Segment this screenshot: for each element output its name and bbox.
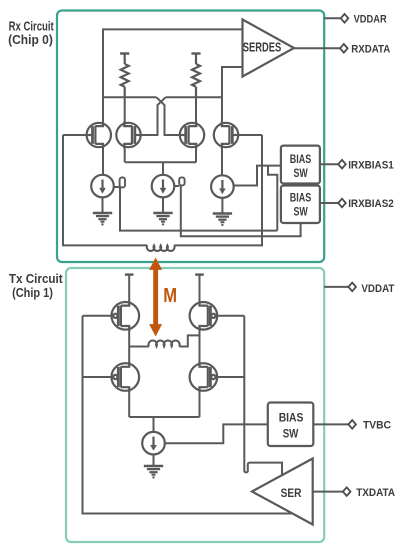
port IRXBIAS2	[338, 199, 346, 208]
BIAS SW box B2	[281, 186, 320, 224]
transistor Q4 (mirrored)	[190, 362, 218, 392]
wire: source rail tap to I2	[162, 162, 164, 175]
wire: I3 to ground	[221, 198, 223, 214]
wire: cross-couple node A to T3 gate	[156, 97, 180, 135]
wire: I2 bias stub	[174, 185, 179, 187]
wire: RXDATA port lead	[294, 47, 340, 49]
svg-text:SERDES: SERDES	[243, 39, 282, 54]
wire: T3 drain / R2 column	[195, 97, 197, 124]
current source I1	[91, 175, 114, 198]
svg-text:M: M	[163, 284, 177, 307]
ground under I2	[153, 213, 172, 226]
svg-text:SW: SW	[294, 204, 309, 218]
wire: Tx coil left lead	[129, 346, 149, 348]
svg-text:BIAS: BIAS	[279, 411, 304, 425]
svg-text:(Chip 1): (Chip 1)	[12, 285, 53, 300]
wire: I1 to ground	[102, 197, 104, 213]
wire: node A rail	[103, 96, 156, 98]
SER driver U2	[252, 459, 313, 525]
inductor L2 (Tx coil)	[149, 341, 180, 347]
transistor M2 (mirrored)	[116, 122, 140, 149]
svg-text:SW: SW	[294, 166, 309, 180]
BIAS SW box B1	[281, 146, 320, 184]
wire: right gate column with hook to SER output	[244, 316, 282, 476]
wire: TXDATA port lead	[313, 491, 343, 493]
wire: Q3 source down	[128, 390, 130, 417]
wire: TVBC port lead	[313, 423, 348, 425]
wire: IRXBIAS1 port lead	[320, 163, 338, 165]
transistor Q2 (mirrored)	[190, 301, 218, 331]
wire: IRXBIAS2 port lead	[320, 202, 338, 204]
svg-text:RXDATA: RXDATA	[351, 44, 390, 56]
wire: node B rail	[166, 96, 222, 98]
wire: Q1 gate to left gate column	[83, 315, 112, 317]
svg-text:TXDATA: TXDATA	[356, 487, 395, 499]
transistor M4 (mirrored)	[214, 122, 238, 149]
wire: M3 source down	[195, 146, 197, 162]
wire: I2 bias line to BIAS SW2	[181, 185, 301, 236]
svg-text:TVBC: TVBC	[363, 420, 391, 432]
svg-text:BIAS: BIAS	[290, 191, 312, 205]
svg-text:VDDAT: VDDAT	[361, 283, 394, 295]
wire: Q4 gate to right gate column	[217, 376, 244, 378]
bias tag capsule at I2	[179, 177, 184, 185]
wire: M2/M3 source rail	[125, 161, 196, 163]
wire: I1 bias line to bias bus	[120, 187, 277, 230]
transistor M1	[87, 122, 111, 149]
svg-text:(Chip 0): (Chip 0)	[8, 32, 53, 47]
wire: bias bus jog down	[268, 166, 277, 231]
port VDDAT	[348, 283, 356, 292]
current source I2	[152, 175, 175, 198]
resistor R2	[191, 54, 200, 98]
wire: terminal stem to Q2 drain	[199, 275, 201, 303]
transistor Q1	[112, 301, 140, 331]
supply terminal T1 (Tx left)	[125, 274, 134, 276]
supply terminal T2 (Tx right)	[195, 274, 204, 276]
wire: rail tap to I4	[153, 417, 155, 432]
port TVBC	[348, 420, 356, 429]
bias tag capsule at I1	[120, 178, 125, 188]
port RXDATA	[340, 44, 348, 53]
wire: I4 to ground	[153, 455, 155, 467]
wire: T1 drain column	[102, 97, 104, 124]
wire: M4 source to I3	[221, 146, 223, 176]
wire: T2 drain / R1 column	[124, 97, 126, 124]
wire: left coil column (M1 gate to coil)	[63, 135, 147, 245]
wire: coil right to M4 gate column	[174, 135, 262, 245]
transistor Q3	[112, 362, 140, 392]
wire: Q1 source column down to Q3 drain	[128, 347, 130, 365]
wire: M4 gate to coil column	[238, 134, 262, 136]
mutual coupling arrow M	[149, 258, 162, 337]
wire: Rx top rail to SERDES input 1	[103, 29, 243, 97]
port TXDATA	[343, 487, 351, 496]
svg-text:SER: SER	[281, 488, 302, 500]
svg-text:VDDAR: VDDAR	[354, 14, 387, 26]
svg-text:SW: SW	[283, 427, 299, 441]
wire: VDDAR port lead	[324, 17, 340, 19]
wire: terminal stem to Q1 drain	[128, 275, 130, 303]
wire: VDDAT port lead	[324, 286, 348, 288]
wire: SERDES input 2 riser	[222, 67, 243, 97]
port IRXBIAS1	[338, 160, 346, 169]
BIAS SW box B3 (Tx)	[268, 403, 314, 447]
wire: I4 to BIAS SW input	[165, 424, 268, 443]
svg-text:BIAS: BIAS	[290, 152, 312, 166]
wire: Q3 gate to left gate column	[83, 376, 112, 378]
wire: T4 drain column	[221, 97, 223, 124]
wire: M2 source down	[124, 146, 126, 162]
wire: Q2 source column down to Q4 drain	[199, 329, 201, 364]
current source I3	[211, 175, 234, 198]
wire: I1 bias stub	[114, 186, 120, 188]
wire: left gate column down to SER	[83, 316, 294, 514]
Tx chip box	[66, 268, 324, 542]
svg-text:IRXBIAS1: IRXBIAS1	[348, 159, 394, 171]
wire: Q1 source to Tx coil	[128, 329, 130, 347]
current source I4	[142, 432, 165, 455]
wire: Q2 gate to right gate column	[217, 315, 244, 317]
resistor R1	[120, 54, 129, 98]
Rx chip box	[57, 11, 324, 263]
wire: I2 to ground	[162, 197, 164, 213]
ground under I1	[93, 213, 112, 226]
ground under I4	[144, 466, 163, 479]
transistor M3	[180, 122, 204, 149]
wire: Q3/Q4 source rail	[129, 416, 199, 418]
wire: I3 to BIAS SW1 input	[234, 166, 281, 186]
port VDDAR	[341, 14, 349, 23]
wire: M1 source to current source I1	[102, 146, 104, 175]
SERDES amplifier U1	[243, 20, 295, 77]
wire: M1 gate to left column	[63, 134, 87, 136]
inductor L1 (Rx coil)	[147, 245, 175, 251]
wire: cross-couple node B to T2 gate	[141, 97, 166, 135]
ground under I3	[213, 214, 232, 227]
wire: Q4 source down	[199, 390, 201, 417]
wire: Tx coil right jog to Q2 source column	[179, 335, 199, 346]
svg-text:IRXBIAS2: IRXBIAS2	[348, 198, 394, 210]
